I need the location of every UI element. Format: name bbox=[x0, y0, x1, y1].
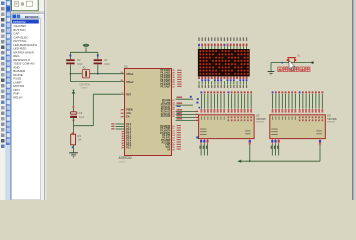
svg-text:P1.7: P1.7 bbox=[126, 147, 131, 149]
svg-text:CRYSTAL: CRYSTAL bbox=[80, 83, 91, 86]
svg-text:12MHz: 12MHz bbox=[119, 161, 126, 163]
svg-text:74HC595: 74HC595 bbox=[256, 119, 266, 121]
svg-text:AT89C52: AT89C52 bbox=[13, 20, 26, 24]
svg-text:U3: U3 bbox=[327, 114, 331, 118]
svg-text:22uF: 22uF bbox=[79, 116, 85, 119]
svg-text:PSEN: PSEN bbox=[126, 110, 133, 112]
svg-text:30pF: 30pF bbox=[77, 63, 83, 66]
svg-text:P2.7/A15: P2.7/A15 bbox=[161, 115, 171, 118]
svg-text:AT89C52: AT89C52 bbox=[119, 156, 132, 160]
svg-text:RELAY: RELAY bbox=[13, 95, 23, 99]
svg-text:XX: XX bbox=[167, 149, 171, 151]
svg-text:U1: U1 bbox=[124, 64, 128, 68]
svg-text:RST: RST bbox=[126, 94, 131, 96]
svg-text:X1: X1 bbox=[83, 66, 87, 70]
svg-text:30pF: 30pF bbox=[104, 63, 110, 66]
svg-text:P0.7/AD7: P0.7/AD7 bbox=[160, 85, 171, 88]
svg-text:74HC595: 74HC595 bbox=[327, 119, 337, 121]
svg-text:C3: C3 bbox=[79, 111, 83, 115]
svg-text:EA: EA bbox=[126, 115, 130, 118]
svg-text:C2: C2 bbox=[77, 58, 81, 62]
svg-text:DEVICES: DEVICES bbox=[25, 15, 39, 19]
svg-text:U2: U2 bbox=[256, 114, 260, 118]
svg-text:ALE: ALE bbox=[126, 112, 131, 115]
svg-text:C1: C1 bbox=[104, 58, 108, 62]
svg-text:XTAL1: XTAL1 bbox=[126, 73, 134, 76]
svg-text:12MHz: 12MHz bbox=[81, 87, 88, 89]
svg-text:R1: R1 bbox=[78, 134, 82, 138]
svg-text:XTAL2: XTAL2 bbox=[126, 81, 134, 84]
